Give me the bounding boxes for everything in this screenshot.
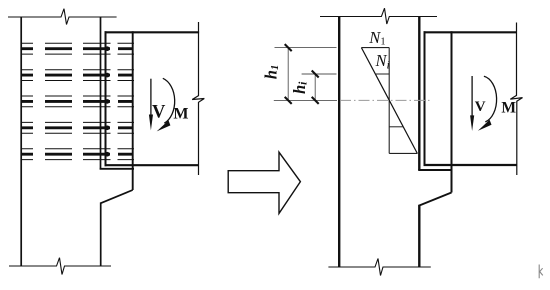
centerline (dash-dot) through right column (340, 99, 430, 101)
right figure: bracket diagonal (419, 193, 451, 206)
stress tick at Ni level (375, 73, 389, 75)
left figure: bottom boundary line with break (9, 258, 111, 275)
right figure: beam top edge (424, 31, 517, 33)
dimension tick h1 bottom (285, 97, 292, 104)
left figure: moment arc M head (157, 120, 171, 131)
right figure: column left edge (338, 17, 340, 268)
dimension tick hi bottom (312, 97, 319, 104)
rebar row 4 anchor dot (105, 126, 110, 131)
stress tick at lower level (389, 126, 403, 128)
svg-text:Ni: Ni (375, 51, 390, 72)
stress block bottom edge (389, 152, 417, 154)
rebar row 5 sleeve top line (21, 148, 134, 150)
left figure: column left edge (20, 17, 22, 266)
right figure: column right edge (upper) (418, 17, 420, 171)
left figure: beam top edge (105, 31, 200, 33)
svg-text:V: V (152, 102, 166, 122)
left figure: beam right edge with break (192, 22, 204, 175)
rebar row 3 anchor dot (105, 99, 110, 104)
dimension extension line (middle, Ni level) (302, 73, 337, 75)
centerline extension left of column (274, 99, 337, 101)
right figure: shear arrow V shaft (471, 76, 473, 116)
left figure: top boundary line with break (8, 9, 117, 25)
small k mark bottom right (539, 265, 543, 279)
svg-text:N1: N1 (368, 28, 385, 48)
stress block top edge (361, 47, 389, 49)
svg-text:M: M (501, 100, 516, 117)
right figure: beam right edge with break (510, 23, 522, 176)
svg-text:V: V (475, 99, 486, 115)
left figure: bracket diagonal (101, 190, 133, 203)
stress block vertical edge (388, 48, 390, 154)
left figure: bracket step line (100, 168, 134, 170)
rebar row 1 anchor dot (105, 46, 110, 51)
left figure: column right edge (upper) (100, 17, 102, 170)
rebar row 1 bar dashes (21, 47, 134, 50)
svg-text:h1: h1 (261, 65, 281, 80)
rebar row 1 sleeve top line (21, 42, 134, 44)
left figure: beam bottom edge (105, 164, 199, 166)
dimension line h1 (287, 48, 289, 101)
left figure: shear arrow V head (149, 115, 153, 131)
rebar row 3 sleeve top line (21, 95, 134, 97)
rebar row 2 bar dashes (21, 74, 134, 77)
left figure: bracket / anchorage vertical (132, 31, 134, 190)
rebar row 1 sleeve bottom line (21, 53, 134, 55)
right figure: bracket step line (418, 169, 452, 171)
rebar row 4 sleeve bottom line (21, 132, 134, 134)
dimension line hi (314, 74, 316, 100)
rebar row 4 bar dashes (21, 126, 134, 129)
rebar row 2 sleeve bottom line (21, 80, 134, 82)
left figure: beam left edge (105, 31, 107, 166)
right figure: moment arc M head (478, 120, 492, 131)
rebar row 3 bar dashes (21, 100, 134, 103)
rebar row 5 sleeve bottom line (21, 159, 134, 161)
right figure: top boundary line with break (320, 8, 437, 24)
right figure: column right edge (lower) (418, 205, 420, 267)
rebar row 5 bar dashes (21, 153, 134, 156)
rebar row 2 anchor dot (105, 73, 110, 78)
svg-text:M: M (173, 106, 188, 123)
rebar row 2 sleeve top line (21, 69, 134, 71)
right figure: moment arc M (484, 76, 497, 122)
dimension tick hi top (312, 71, 319, 78)
right figure: beam left edge (424, 31, 426, 166)
dimension extension line (top, N1 level) (275, 47, 337, 49)
rebar row 4 sleeve top line (21, 121, 134, 123)
left figure: column right edge (lower) (100, 202, 102, 266)
stress block diagonal (361, 48, 417, 154)
big block arrow between figures (228, 152, 300, 213)
right figure: bracket vertical (451, 31, 453, 192)
left figure: shear arrow V shaft (150, 79, 152, 117)
rebar row 5 anchor dot (105, 152, 110, 157)
right figure: bottom boundary line with break (328, 259, 430, 276)
dimension tick h1 top (285, 44, 292, 51)
right figure: shear arrow V head (470, 115, 474, 131)
left figure: moment arc M (163, 78, 175, 123)
rebar row 3 sleeve bottom line (21, 106, 134, 108)
right figure: beam bottom edge (424, 164, 517, 166)
svg-text:hi: hi (290, 81, 310, 94)
